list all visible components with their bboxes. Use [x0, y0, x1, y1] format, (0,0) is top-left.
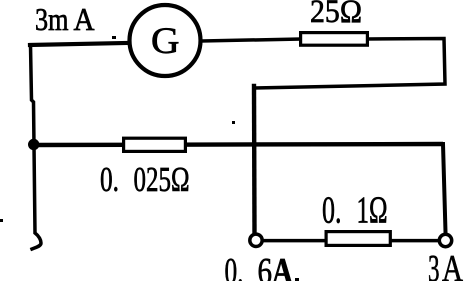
svg-text:6A: 6A	[258, 252, 294, 281]
svg-text:1Ω: 1Ω	[357, 189, 388, 231]
svg-text:3: 3	[428, 248, 440, 281]
svg-text:25Ω: 25Ω	[310, 0, 362, 30]
svg-text:G: G	[151, 21, 180, 62]
svg-text:A: A	[442, 248, 463, 281]
svg-text:0.: 0.	[322, 189, 342, 231]
svg-text:0.: 0.	[100, 160, 119, 199]
svg-text:025Ω: 025Ω	[134, 160, 190, 199]
svg-text:A: A	[74, 1, 95, 37]
svg-text:0.: 0.	[225, 252, 244, 281]
svg-text:3m: 3m	[35, 1, 69, 37]
